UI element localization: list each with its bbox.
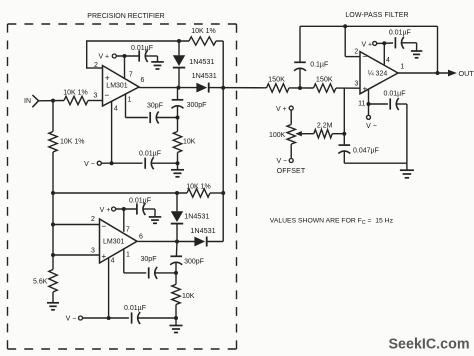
wire D2 to low-pass filter [209, 87, 267, 89]
wire comp node to R4 [177, 118, 179, 132]
svg-text:−: − [104, 90, 109, 100]
svg-text:OUT: OUT [459, 69, 474, 78]
pin 4 label U3 [386, 57, 390, 64]
svg-text:0.01µF: 0.01µF [131, 45, 153, 52]
wire U1 pin 1 drop [125, 94, 127, 118]
junction dot input node [51, 99, 55, 103]
svg-text:−: − [101, 221, 106, 231]
wire R2 down to section 2 node [52, 152, 54, 193]
junction dot feedback tap node lower [51, 191, 55, 195]
svg-text:OFFSET: OFFSET [277, 168, 306, 175]
label C3 300pF [187, 102, 207, 109]
label C1 0.01uF [131, 45, 153, 52]
capacitor C9 0.1uF (filter) [294, 26, 306, 88]
wire C5 to ground [143, 208, 155, 210]
junction dot output node U3 [436, 71, 440, 75]
wire V- to C8 [83, 317, 129, 319]
ground C5 [149, 209, 162, 223]
wire V- to C4 [101, 162, 142, 164]
ground LPF [400, 163, 414, 178]
resistor R1 10K 1% (series input, upper) [64, 96, 88, 104]
svg-text:IN: IN [24, 98, 31, 105]
diode D2 1N4531 (series output, upper) [196, 83, 208, 93]
wire offset node up to pin3 line [343, 88, 345, 134]
svg-text:0.01µF: 0.01µF [139, 150, 161, 157]
svg-text:3: 3 [94, 93, 98, 100]
ground R6 [47, 292, 59, 310]
resistor R7 10K (vertical, lower) [172, 284, 180, 304]
capacitor C3 300pF (vertical, upper) [172, 88, 184, 118]
svg-text:−: − [362, 52, 367, 62]
pin 7 label U1 [129, 72, 133, 79]
capacitor C12 0.047uF [338, 134, 350, 164]
svg-text:1: 1 [128, 97, 132, 104]
pin 1 label U3 [400, 64, 404, 71]
capacitor C8 0.01uF (V- bypass, lower) [132, 312, 141, 324]
op-amp U3 quarter LM324 triangle [360, 52, 398, 94]
junction dot feedback/diode D3 [175, 191, 179, 195]
label C11 0.01uF [384, 91, 406, 98]
resistor R3 10K 1% (feedback, upper) [189, 37, 216, 45]
wire pot bottom [290, 144, 292, 158]
junction dot V+ node U3 [382, 41, 386, 45]
svg-text:PRECISION RECTIFIER: PRECISION RECTIFIER [87, 13, 164, 20]
wire IN to R1 [39, 100, 64, 102]
wire feedback top run [86, 40, 189, 42]
label D1 1N4531 [189, 57, 214, 66]
svg-text:100K: 100K [269, 132, 286, 139]
op-amp U1 LM301 triangle [103, 66, 140, 107]
junction dot pin 11 node [367, 102, 371, 106]
ground C1 [151, 56, 164, 69]
terminal V- supply U2 [66, 316, 83, 323]
wire U1 pin 2 feedback left [87, 67, 103, 69]
terminal V- supply U3 [366, 115, 377, 130]
wire R4 to ground node [177, 153, 179, 164]
ground C10 [411, 43, 423, 58]
svg-text:V +: V + [100, 207, 111, 214]
wire U2 pin 2 [53, 224, 100, 226]
junction dot feedback/diode D1 [177, 39, 181, 43]
svg-text:300pF: 300pF [184, 259, 204, 266]
svg-text:V −: V − [276, 158, 287, 165]
wire U1 output [139, 87, 197, 89]
dashed enclosure PRECISION RECTIFIER box [8, 24, 237, 349]
svg-text:0.047µF: 0.047µF [353, 147, 379, 154]
terminal V+ offset pot [276, 106, 293, 113]
svg-text:150K: 150K [316, 75, 333, 84]
pin 3 label U1 [94, 93, 98, 100]
wire node down to pin3 node [52, 225, 54, 256]
wire pin11 to C11 [369, 103, 388, 105]
pin 2 label U2 [91, 216, 95, 223]
wire rail down to out [437, 26, 439, 73]
pin 7 label U2 [126, 227, 130, 234]
svg-text:1: 1 [400, 64, 404, 71]
resistor R5 10K 1% (feedback, lower) [187, 189, 210, 197]
svg-text:150K: 150K [268, 75, 285, 84]
wire U3 pin 11 drop [368, 89, 370, 115]
label D3 1N4531 [184, 212, 209, 221]
svg-text:+: + [105, 73, 110, 83]
resistor R8 150K (first) [267, 84, 290, 92]
wire feedback top run LPF [300, 25, 438, 27]
label R2 10K 1% [60, 139, 85, 146]
resistor R4 10K (vertical, upper) [173, 132, 181, 153]
wire pin2 branch right [345, 56, 360, 58]
wire U1 pin 7 drop [124, 56, 126, 79]
wire pot top [290, 110, 292, 124]
terminal V- supply U1 [84, 161, 101, 168]
wire R1 to op-amp U1 pin 3 [88, 100, 103, 102]
svg-text:V +: V + [276, 106, 287, 113]
svg-text:10K 1%: 10K 1% [60, 139, 85, 146]
wire U2 pin 4 drop [108, 258, 110, 318]
svg-text:3: 3 [91, 248, 95, 255]
svg-text:30pF: 30pF [147, 103, 163, 110]
resistor R6 5.6K [49, 270, 57, 293]
ground main lower [170, 318, 183, 333]
label R8 150K [268, 75, 285, 84]
svg-text:3: 3 [355, 80, 359, 87]
svg-text:V +: V + [361, 42, 372, 49]
svg-text:0.01µF: 0.01µF [129, 197, 151, 204]
junction dot offset node [342, 132, 346, 136]
svg-text:300pF: 300pF [187, 102, 207, 109]
junction dot ground node lower [174, 316, 178, 320]
junction dot rail feedback lower [221, 191, 225, 195]
junction dot output/diode node [177, 86, 181, 90]
resistor R9 150K (second) [314, 84, 337, 92]
diode D4 1N4531 (series output, lower) [194, 237, 206, 247]
label C6 30pF [141, 256, 157, 263]
pin 2 label U1 [94, 62, 98, 69]
junction dot filter node [298, 86, 302, 90]
svg-text:V −: V − [84, 161, 95, 168]
label C2 30pF [147, 103, 163, 110]
resistor R11 2.2M [314, 130, 332, 138]
wire U2 pin 3 [53, 254, 100, 256]
wire input node down [52, 193, 54, 225]
label C7 300pF [184, 259, 204, 266]
pin 1 label U1 [128, 97, 132, 104]
wire V+ to bypass cap C1 [116, 55, 139, 57]
svg-text:2.2M: 2.2M [317, 122, 333, 129]
svg-text:10K: 10K [182, 293, 195, 300]
svg-text:+: + [362, 83, 367, 93]
pin 3 label U2 [91, 248, 95, 255]
svg-text:5.6K: 5.6K [33, 279, 48, 286]
wire rail down lower [222, 88, 224, 242]
label C4 0.01uF [139, 150, 161, 157]
svg-text:1N4531: 1N4531 [190, 226, 215, 235]
svg-text:2: 2 [91, 216, 95, 223]
diode D1 1N4531 (vertical, upper) [173, 41, 185, 88]
svg-text:10K: 10K [183, 139, 196, 146]
note values text [270, 217, 394, 226]
wire pin1 to C2 [126, 117, 148, 119]
wire R11 to node [332, 133, 344, 135]
svg-text:4: 4 [386, 57, 390, 64]
capacitor C4 0.01uF (V- bypass, upper) [145, 157, 154, 169]
svg-text:2: 2 [354, 49, 358, 56]
svg-text:0.01µF: 0.01µF [124, 305, 146, 312]
label R4 10K [183, 139, 196, 146]
capacitor C10 0.01uF (V+ bypass U3) [395, 37, 404, 49]
capacitor C1 0.01uF (V+ bypass, upper) [139, 50, 148, 62]
wire C11 down to ground line [396, 104, 407, 163]
svg-text:10K 1%: 10K 1% [186, 184, 211, 191]
wire C12 to ground line [344, 162, 407, 164]
output arrow OUT [448, 70, 457, 77]
label OFFSET [277, 168, 306, 175]
label R9 150K [316, 75, 333, 84]
wiper arrow of pot [295, 131, 313, 136]
pin 11 label U3 [358, 101, 365, 108]
node IN label [24, 98, 31, 105]
wire C4 to ground node [152, 162, 178, 164]
junction dot U2 pin 2 node [51, 223, 55, 227]
svg-text:1N4531: 1N4531 [189, 57, 214, 66]
junction dot rail at output line [221, 86, 225, 90]
terminal V+ supply U3 [361, 41, 376, 48]
label C12 0.047uF [353, 147, 379, 154]
wire C10 to ground [402, 42, 417, 44]
wire U3 pin 4 drop [383, 43, 385, 65]
wire pin2 branch down [344, 26, 346, 56]
wire U1 pin 4 drop [111, 101, 113, 163]
pin 1 label U2 [126, 252, 130, 259]
pin 3 label U3 [355, 80, 359, 87]
wire feedback run lower [53, 192, 187, 194]
wire feedback up [86, 41, 88, 69]
pin 4 label U1 [114, 106, 118, 113]
title LOW-PASS FILTER [345, 12, 408, 19]
terminal V- offset pot [276, 158, 293, 165]
svg-text:6: 6 [141, 77, 145, 84]
junction dot V+ node [123, 54, 127, 58]
op-amp U2 LM301 triangle [100, 219, 138, 263]
svg-text:30pF: 30pF [141, 256, 157, 263]
label C9 0.1uF [310, 61, 328, 68]
junction dot pin4 node [110, 161, 114, 165]
junction dot ground node upper [176, 161, 180, 165]
wire V+ node U3 [377, 42, 393, 44]
terminal V+ supply U1 [98, 54, 116, 61]
capacitor C6 30pF (comp, lower) [149, 267, 158, 279]
svg-text:1N4531: 1N4531 [192, 71, 217, 80]
wire D4 to rail [207, 241, 224, 243]
wire U2 pin 7 drop [123, 209, 125, 232]
diode D3 1N4531 (vertical, lower) [171, 193, 183, 242]
pin 2 label U3 [354, 49, 358, 56]
svg-text:LOW-PASS FILTER: LOW-PASS FILTER [345, 12, 408, 19]
svg-text:10K 1%: 10K 1% [63, 90, 88, 97]
svg-text:7: 7 [129, 72, 133, 79]
junction dot comp node lower [174, 271, 178, 275]
wire R7 to ground node [175, 305, 177, 319]
wire C6 to node [155, 272, 176, 274]
wire comp node to R7 [175, 273, 177, 284]
svg-text:4: 4 [111, 257, 115, 264]
title PRECISION RECTIFIER [87, 13, 164, 20]
svg-text:0.1µF: 0.1µF [310, 61, 328, 68]
svg-text:V −: V − [366, 123, 377, 130]
junction dot V+ node lower [122, 207, 126, 211]
wire V+ node lower [116, 208, 137, 210]
capacitor C7 300pF (vertical, lower) [170, 242, 182, 273]
capacitor C2 30pF (comp, upper) [150, 112, 159, 124]
label R1 10K 1% [63, 90, 88, 97]
label D4 1N4531 [190, 226, 215, 235]
svg-text:1N4531: 1N4531 [184, 212, 209, 221]
wire pin1 to C6 lower [124, 272, 147, 274]
svg-text:+: + [101, 251, 106, 261]
wire pin3 node to R6 [52, 255, 54, 270]
label R5 10K 1% [186, 184, 211, 191]
pin 6 label U2 [139, 233, 143, 240]
junction dot U2 pin 3 node [51, 253, 55, 257]
svg-text:LM301: LM301 [106, 82, 128, 89]
svg-text:10K 1%: 10K 1% [191, 28, 216, 35]
input arrow IN [32, 95, 38, 107]
label R11 2.2M [317, 122, 333, 129]
label C10 0.01uF [389, 30, 411, 37]
label C8 0.01uF [124, 305, 146, 312]
wire C2 to node [157, 117, 178, 119]
label R6 5.6K [33, 279, 48, 286]
wire U2 pin 1 drop [123, 249, 125, 273]
svg-text:0.01µF: 0.01µF [389, 30, 411, 37]
wire C1 to ground [145, 55, 157, 57]
wire R9 to U3 pin 3 [336, 87, 360, 89]
capacitor C11 0.01uF (pin 11 bypass) [390, 98, 399, 110]
svg-text:11: 11 [358, 101, 365, 108]
svg-text:¼ 324: ¼ 324 [368, 71, 388, 78]
svg-text:V +: V + [98, 54, 109, 61]
svg-text:1: 1 [126, 252, 130, 259]
wire R3 to rail corner [216, 40, 223, 42]
junction dot output/diode node lower [175, 240, 179, 244]
pin 4 label U2 [111, 257, 115, 264]
label R3 10K 1% [191, 28, 216, 35]
resistor R2 10K 1% (vertical divider) [49, 132, 57, 153]
terminal V+ supply U2 [100, 207, 116, 214]
svg-text:LM301: LM301 [103, 238, 125, 245]
junction dot top feedback node [343, 24, 347, 28]
svg-text:6: 6 [139, 233, 143, 240]
label C5 0.01uF [129, 197, 151, 204]
svg-text:4: 4 [114, 106, 118, 113]
wire U3 output [398, 72, 448, 74]
svg-text:7: 7 [126, 227, 130, 234]
pin 6 label U1 [141, 77, 145, 84]
wire R5 to rail [210, 192, 223, 194]
label R10 100K [269, 132, 286, 139]
label OUT [459, 69, 474, 78]
watermark SeekIC.com [389, 337, 470, 353]
svg-text:0.01µF: 0.01µF [384, 91, 406, 98]
wire U2 output [137, 240, 195, 242]
svg-text:V −: V − [66, 316, 77, 323]
junction dot comp node [176, 116, 180, 120]
potentiometer R10 100K offset [287, 125, 295, 145]
ground main upper [171, 163, 184, 177]
wire vertical input node down to R2 [52, 101, 54, 132]
junction dot pin4 node lower [107, 316, 111, 320]
wire C8 to ground node [138, 317, 176, 319]
svg-text:SeekIC.com: SeekIC.com [389, 337, 470, 353]
label R7 10K [182, 293, 195, 300]
wire rail down to output line [222, 41, 224, 88]
label D2 1N4531 [192, 71, 217, 80]
wire R8 to R9 [289, 87, 314, 89]
capacitor C5 0.01uF (V+ bypass, lower) [137, 203, 146, 215]
